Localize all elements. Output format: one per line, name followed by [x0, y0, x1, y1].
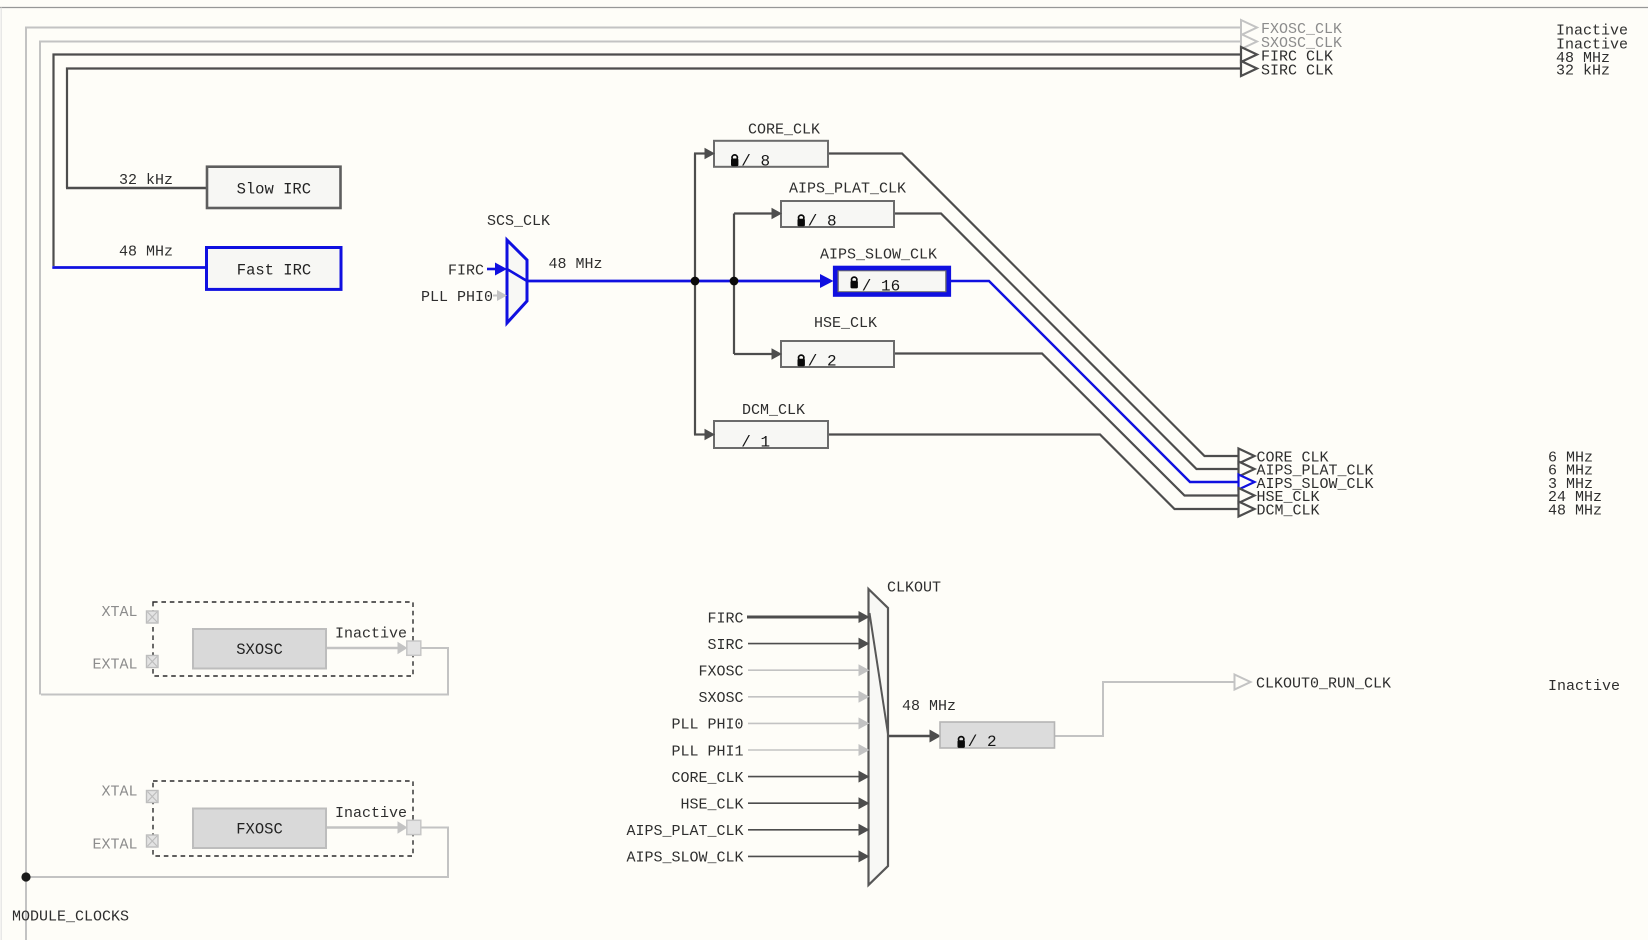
svg-text:Slow IRC: Slow IRC: [237, 181, 311, 199]
wire HSE_CLK divider input: [734, 353, 773, 355]
pin XTAL pad (FXOSC): [147, 791, 159, 803]
svg-text:/ 1: / 1: [741, 433, 770, 451]
output arrow AIPS_SLOW_CLK: [1239, 475, 1255, 490]
pin EXTAL pad (FXOSC): [147, 835, 159, 847]
lock icon HSE_CLK: [798, 355, 805, 366]
svg-text:SIRC CLK: SIRC CLK: [1261, 63, 1333, 80]
svg-text:AIPS_PLAT_CLK: AIPS_PLAT_CLK: [626, 823, 743, 840]
arrow into DCM_CLK divider: [705, 429, 716, 440]
value /8 (AIPS_PLAT_CLK divider): [808, 213, 837, 231]
label SXOSC: [236, 641, 283, 659]
svg-text:48 MHz: 48 MHz: [1548, 503, 1602, 520]
wire CLKOUT input SIRC: [748, 643, 860, 645]
wire FXOSC_CLK left vertical: [26, 28, 1240, 940]
svg-text:Fast IRC: Fast IRC: [237, 262, 311, 280]
label Fast IRC: [237, 262, 311, 280]
pad SXOSC output square: [407, 641, 421, 655]
wire CORE_CLK divider output: [828, 154, 1240, 457]
output arrow SIRC_CLK: [1241, 61, 1257, 76]
pin label SXOSC (CLKOUT): [698, 690, 743, 707]
label AIPS_SLOW_CLK: [820, 247, 937, 264]
svg-text:Inactive: Inactive: [1548, 678, 1620, 695]
net label CORE CLK (right): [1257, 449, 1329, 466]
pin label PLL PHI0 (CLKOUT): [671, 717, 743, 734]
value Inactive (FXOSC_CLK): [1556, 23, 1628, 40]
pin label PLL PHI0 (SCS mux): [421, 289, 493, 306]
junction node SCS output 1: [691, 277, 700, 286]
net label AIPS_SLOW_CLK (right): [1257, 476, 1374, 493]
output arrow DCM_CLK: [1239, 502, 1255, 517]
wire CLKOUT input PLL PHI1: [748, 749, 860, 751]
divider AIPS_SLOW_CLK box (selected): [835, 268, 949, 295]
junction node FXOSC return: [21, 872, 30, 881]
svg-text:DCM_CLK: DCM_CLK: [1257, 503, 1320, 520]
pin label AIPS_PLAT_CLK (CLKOUT): [626, 823, 743, 840]
wire CORE_CLK divider input: [694, 152, 706, 154]
svg-text:PLL PHI1: PLL PHI1: [671, 743, 743, 760]
value Inactive (SXOSC_CLK): [1556, 37, 1628, 54]
svg-text:AIPS_SLOW_CLK: AIPS_SLOW_CLK: [626, 850, 743, 867]
pin label XTAL (FXOSC): [101, 783, 137, 800]
wire AIPS_PLAT_CLK divider input: [734, 212, 773, 214]
value 32 kHz (SIRC_CLK): [1556, 63, 1610, 80]
wire FXOSC return net: [27, 828, 448, 878]
svg-text:Inactive: Inactive: [335, 625, 407, 642]
module FXOSC box: [193, 809, 326, 849]
wire divider trunk vertical 1: [694, 154, 696, 435]
value /8 (CORE_CLK divider): [741, 152, 770, 170]
svg-text:CORE_CLK: CORE_CLK: [748, 121, 820, 138]
svg-text:48 MHz: 48 MHz: [902, 698, 956, 715]
svg-text:32 kHz: 32 kHz: [1556, 63, 1610, 80]
wire DCM_CLK divider output: [828, 435, 1240, 510]
svg-text:32 kHz: 32 kHz: [119, 172, 173, 189]
module Slow IRC box: [207, 167, 341, 208]
wire FXOSC module output: [326, 826, 399, 828]
pin EXTAL pad (SXOSC): [147, 656, 159, 668]
output arrow SXOSC_CLK: [1241, 34, 1257, 49]
wire CLKOUT input CORE_CLK: [748, 776, 860, 778]
wire CLKOUT input SXOSC: [748, 696, 860, 698]
svg-text:AIPS_SLOW_CLK: AIPS_SLOW_CLK: [820, 247, 937, 264]
svg-text:DCM_CLK: DCM_CLK: [742, 402, 805, 419]
value Inactive (CLKOUT0_RUN_CLK): [1548, 678, 1620, 695]
label Slow IRC: [237, 181, 311, 199]
arrow into AIPS_PLAT_CLK divider: [772, 208, 783, 219]
svg-text:CLKOUT0_RUN_CLK: CLKOUT0_RUN_CLK: [1256, 675, 1391, 692]
label FXOSC: [236, 820, 283, 838]
svg-text:FIRC: FIRC: [707, 610, 743, 627]
output arrow AIPS_PLAT_CLK: [1239, 462, 1255, 477]
pin label AIPS_SLOW_CLK (CLKOUT): [626, 850, 743, 867]
wire CLKOUT output to divider: [888, 735, 932, 738]
wire divider trunk vertical 2: [733, 214, 735, 355]
pin label EXTAL (SXOSC): [92, 656, 137, 673]
value /2 (HSE_CLK divider): [808, 353, 837, 371]
svg-text:CLKOUT: CLKOUT: [887, 579, 941, 596]
value /16 (AIPS_SLOW_CLK divider): [862, 278, 900, 296]
mux SCS_CLK trapezoid: [507, 240, 527, 323]
svg-text:EXTAL: EXTAL: [92, 836, 137, 853]
svg-text:SCS_CLK: SCS_CLK: [487, 213, 550, 230]
wire SIRC_CLK net: [67, 69, 1240, 189]
arrow into HSE_CLK divider: [772, 348, 783, 359]
svg-text:/ 2: / 2: [968, 733, 997, 751]
output arrow HSE_CLK: [1239, 488, 1255, 503]
divider HSE_CLK box: [781, 341, 894, 367]
junction node SCS output 2: [730, 277, 739, 286]
arrow FXOSC output: [398, 821, 408, 833]
wire AIPS_PLAT_CLK divider output: [894, 214, 1240, 470]
wire CLKOUT input AIPS_SLOW_CLK: [748, 855, 860, 857]
output arrow FIRC_CLK: [1241, 47, 1257, 62]
svg-text:HSE_CLK: HSE_CLK: [814, 315, 877, 332]
svg-text:XTAL: XTAL: [101, 604, 137, 621]
svg-text:SIRC: SIRC: [707, 637, 743, 654]
svg-text:EXTAL: EXTAL: [92, 656, 137, 673]
output arrow CLKOUT0_RUN_CLK: [1235, 675, 1251, 690]
arrow into AIPS_SLOW_CLK divider (blue): [820, 274, 834, 288]
module SXOSC box: [193, 629, 326, 669]
wire FIRC_CLK net: [54, 55, 1241, 267]
net label CLKOUT0_RUN_CLK: [1256, 675, 1391, 692]
svg-text:CORE_CLK: CORE_CLK: [671, 770, 743, 787]
wire SXOSC return net: [41, 648, 448, 695]
wire AIPS_SLOW_CLK output blue: [951, 281, 1240, 482]
pin label PLL PHI1 (CLKOUT): [671, 743, 743, 760]
lock icon CLKOUT0 divider: [958, 737, 965, 748]
net label FXOSC_CLK (top): [1261, 21, 1342, 38]
svg-text:PLL PHI0: PLL PHI0: [421, 289, 493, 306]
label DCM_CLK: [742, 402, 805, 419]
label SCS_CLK: [487, 213, 550, 230]
label AIPS_PLAT_CLK: [789, 181, 906, 198]
net label SIRC CLK (top): [1261, 63, 1333, 80]
net label FIRC CLK (top): [1261, 49, 1333, 66]
pin label FIRC (SCS mux): [448, 262, 484, 279]
lock icon AIPS_SLOW_CLK: [851, 277, 858, 288]
value label 48 MHz (CLKOUT output): [902, 698, 956, 715]
label CLKOUT: [887, 579, 941, 596]
label HSE_CLK: [814, 315, 877, 332]
pin label CORE_CLK (CLKOUT): [671, 770, 743, 787]
value 48 MHz (DCM_CLK): [1548, 503, 1602, 520]
value /1 (DCM_CLK divider): [741, 433, 770, 451]
svg-text:PLL PHI0: PLL PHI0: [671, 717, 743, 734]
net label HSE_CLK (right): [1257, 489, 1320, 506]
arrow SXOSC output: [398, 642, 408, 654]
svg-text:Inactive: Inactive: [335, 805, 407, 822]
net label DCM_CLK (right): [1257, 503, 1320, 520]
module FXOSC dashed boundary: [153, 781, 413, 856]
divider CORE_CLK box: [714, 141, 828, 167]
wire CLKOUT input FXOSC: [748, 669, 860, 671]
pin label XTAL (SXOSC): [101, 604, 137, 621]
module Fast IRC box: [207, 248, 342, 290]
net label AIPS_PLAT_CLK (right): [1257, 463, 1374, 480]
value Inactive (SXOSC): [335, 625, 407, 642]
pin label EXTAL (FXOSC): [92, 836, 137, 853]
wire DCM_CLK divider input: [694, 433, 706, 435]
svg-text:FIRC: FIRC: [448, 262, 484, 279]
lock icon CORE_CLK: [731, 155, 738, 166]
output arrow FXOSC_CLK: [1241, 20, 1257, 35]
svg-text:/ 8: / 8: [808, 213, 837, 231]
pin label SIRC (CLKOUT): [707, 637, 743, 654]
wire SCS_CLK output blue: [527, 280, 822, 283]
wire Slow IRC to SIRC vertical: [66, 187, 207, 189]
value Inactive (FXOSC): [335, 805, 407, 822]
value 6 MHz (AIPS_PLAT_CLK): [1548, 463, 1593, 480]
module SXOSC dashed boundary: [153, 602, 413, 676]
svg-text:FXOSC: FXOSC: [236, 820, 283, 838]
divider CLKOUT0 /2 box: [940, 722, 1055, 748]
svg-text:AIPS_PLAT_CLK: AIPS_PLAT_CLK: [789, 181, 906, 198]
svg-text:48 MHz: 48 MHz: [119, 244, 173, 261]
pin label FXOSC (CLKOUT): [698, 664, 743, 681]
pin label FIRC (CLKOUT): [707, 610, 743, 627]
divider DCM_CLK box: [714, 421, 828, 448]
wire CLKOUT input FIRC: [747, 616, 860, 619]
label MODULE_CLOCKS: [12, 909, 129, 926]
lock icon AIPS_PLAT_CLK: [798, 215, 805, 226]
output arrow CORE_CLK: [1239, 449, 1255, 464]
wire CLKOUT0 divider output inactive: [1055, 682, 1237, 736]
arrow into CORE_CLK divider: [705, 148, 716, 159]
pin label HSE_CLK (CLKOUT): [680, 797, 743, 814]
value label 32 kHz (Slow IRC): [119, 172, 173, 189]
svg-text:MODULE_CLOCKS: MODULE_CLOCKS: [12, 909, 129, 926]
wire CLKOUT input HSE_CLK: [748, 802, 860, 804]
value 6 MHz (CORE_CLK): [1548, 449, 1593, 466]
value 48 MHz (FIRC_CLK): [1556, 50, 1610, 67]
mux CLKOUT trapezoid: [869, 589, 889, 885]
svg-text:SXOSC: SXOSC: [698, 690, 743, 707]
wire CLKOUT input PLL PHI0: [748, 722, 860, 724]
svg-text:/ 8: / 8: [741, 152, 770, 170]
value label 48 MHz (Fast IRC): [119, 244, 173, 261]
pad FXOSC output square: [407, 820, 421, 834]
svg-text:HSE_CLK: HSE_CLK: [680, 797, 743, 814]
pin FIRC input arrow (SCS mux): [487, 263, 507, 276]
wire Fast IRC blue segment: [52, 266, 207, 269]
arrow into CLKOUT0 divider: [930, 730, 942, 743]
value 24 MHz (HSE_CLK): [1548, 489, 1602, 506]
wire CLKOUT input AIPS_PLAT_CLK: [748, 829, 860, 831]
value /2 (CLKOUT0 divider): [968, 733, 997, 751]
arrows into CLKOUT mux inputs: [859, 611, 870, 862]
wire HSE_CLK divider output: [894, 354, 1240, 496]
divider AIPS_PLAT_CLK box: [781, 201, 894, 227]
value 3 MHz (AIPS_SLOW_CLK): [1548, 476, 1593, 493]
svg-text:/ 16: / 16: [862, 278, 900, 296]
svg-text:XTAL: XTAL: [101, 783, 137, 800]
svg-text:48 MHz: 48 MHz: [549, 256, 603, 273]
svg-text:FXOSC: FXOSC: [698, 664, 743, 681]
value label 48 MHz (SCS output): [549, 256, 603, 273]
wire SXOSC module output: [326, 647, 399, 649]
net label SXOSC_CLK (top): [1261, 35, 1342, 52]
label CORE_CLK: [748, 121, 820, 138]
svg-text:/ 2: / 2: [808, 353, 837, 371]
svg-text:SXOSC: SXOSC: [236, 641, 283, 659]
pin PLL PHI0 input arrow (SCS mux): [493, 290, 507, 301]
pin XTAL pad (SXOSC): [147, 611, 159, 623]
wire SXOSC_CLK left vertical: [40, 42, 1240, 695]
